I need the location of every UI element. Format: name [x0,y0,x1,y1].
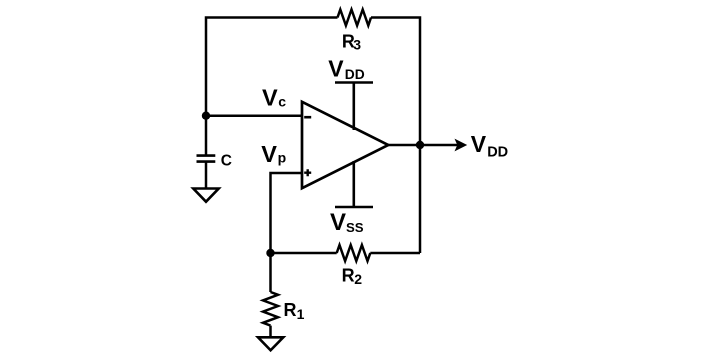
svg-text:V: V [261,141,277,167]
resistor R1 [263,292,278,326]
svg-text:V: V [471,131,487,157]
svg-text:R: R [284,300,297,320]
resistor R2 [337,245,371,261]
ground (R1) [258,337,283,350]
svg-text:V: V [262,85,278,111]
node B junction dot [266,249,274,257]
ground (capacitor) [193,189,218,202]
wire: bottom from node B to R2 [271,252,337,255]
wire: top-left horizontal segment (node A up to R3) [206,18,338,117]
svg-text:DD: DD [345,67,365,82]
node C junction dot [416,141,424,149]
svg-text:R: R [342,266,355,286]
op-amp minus pin mark [304,116,311,119]
svg-text:DD: DD [487,144,508,160]
svg-text:V: V [328,55,344,81]
svg-text:1: 1 [297,306,305,322]
wire: capacitor to ground [205,162,208,189]
op-amp plus pin mark [304,169,311,176]
output arrowhead [455,139,468,152]
svg-text:V: V [330,209,346,236]
wire: node A down to capacitor [205,116,208,155]
wire: R1 to ground [269,326,272,337]
wire: R2 to right branch [370,252,420,255]
wire: node B down to R1 [269,253,272,292]
wire: op-amp output to node C and arrow stub [388,144,458,147]
svg-text:3: 3 [353,36,361,52]
svg-text:SS: SS [346,220,364,235]
svg-text:c: c [278,94,286,110]
wire: inverting input (node A to op-amp) [206,114,302,117]
VSS supply rail bar [335,161,373,207]
resistor R3 [338,10,372,26]
wire: top-right horizontal into right vertical branch [371,18,420,254]
op-amp U1 [302,102,388,188]
VDD supply rail bar [335,83,373,131]
svg-text:C: C [221,153,232,170]
svg-text:p: p [278,150,287,166]
wire: non-inverting input from node B [271,173,303,253]
svg-text:2: 2 [354,271,362,287]
capacitor C [197,156,216,162]
node A junction dot [202,112,210,120]
